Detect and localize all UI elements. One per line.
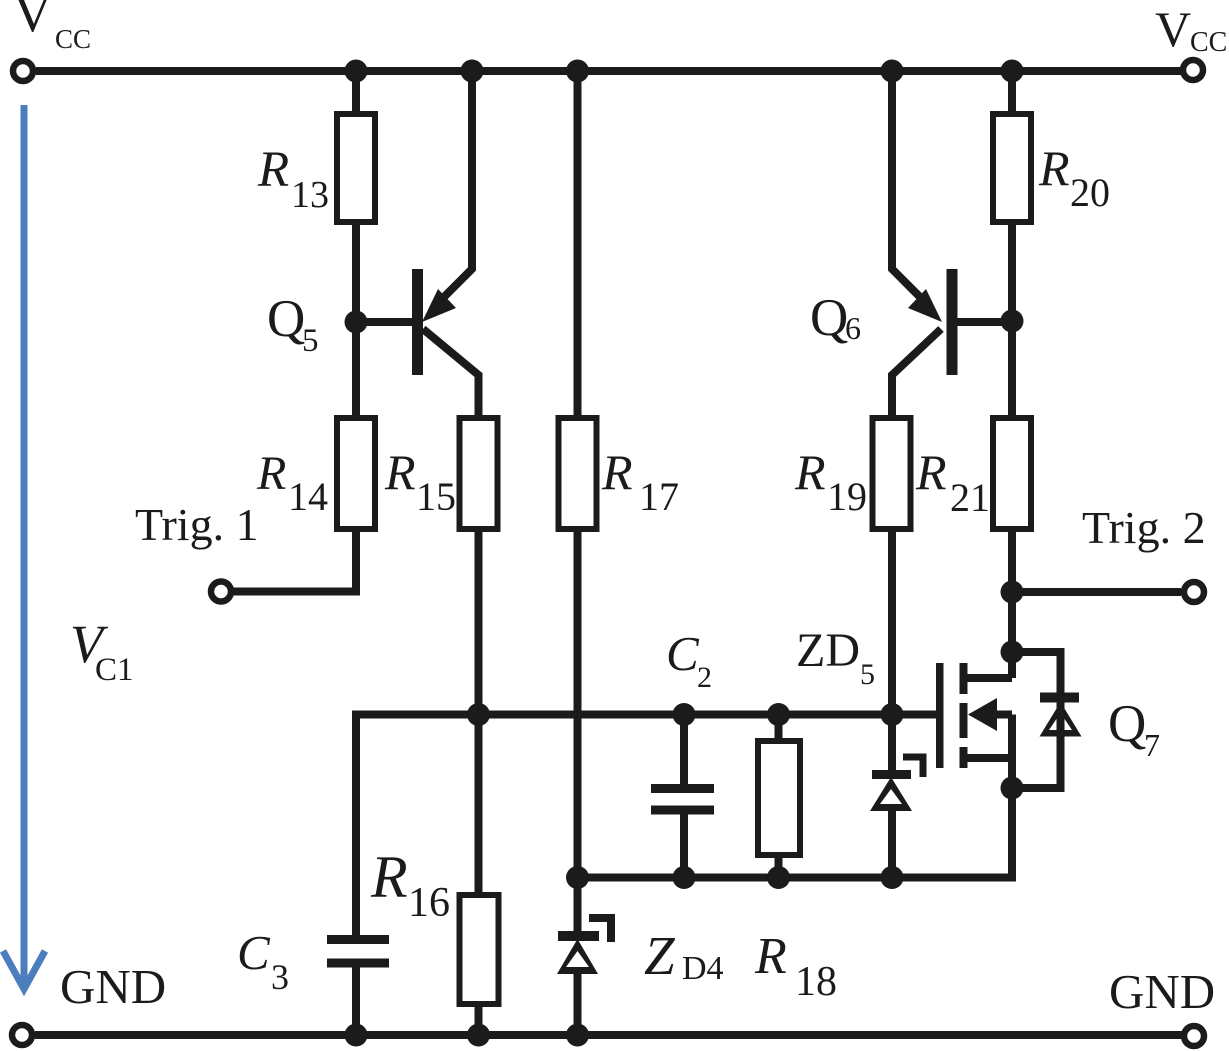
- svg-text:19: 19: [827, 474, 867, 519]
- svg-text:5: 5: [860, 658, 875, 691]
- svg-text:GND: GND: [1109, 964, 1215, 1019]
- svg-text:3: 3: [271, 957, 289, 997]
- svg-text:Q: Q: [810, 289, 848, 347]
- svg-text:14: 14: [288, 474, 328, 519]
- svg-text:C: C: [237, 925, 271, 980]
- svg-text:D4: D4: [682, 950, 724, 987]
- svg-text:GND: GND: [60, 959, 166, 1014]
- svg-text:R: R: [370, 844, 408, 910]
- svg-text:R: R: [257, 142, 289, 198]
- svg-text:R: R: [915, 444, 947, 500]
- svg-text:C1: C1: [95, 652, 134, 688]
- svg-text:CC: CC: [55, 24, 91, 54]
- svg-text:Q: Q: [1108, 695, 1146, 753]
- svg-text:R: R: [794, 444, 826, 500]
- svg-text:Z: Z: [644, 925, 676, 986]
- svg-text:R: R: [601, 444, 633, 500]
- svg-text:6: 6: [845, 310, 861, 346]
- svg-text:C: C: [666, 626, 700, 681]
- svg-text:Q: Q: [267, 290, 305, 348]
- svg-text:V: V: [13, 0, 52, 43]
- svg-text:21: 21: [950, 475, 990, 520]
- svg-text:R: R: [384, 444, 416, 500]
- svg-text:R: R: [256, 447, 286, 500]
- svg-text:ZD: ZD: [796, 624, 860, 677]
- svg-text:V: V: [1155, 1, 1191, 57]
- svg-text:20: 20: [1070, 170, 1110, 215]
- svg-text:Trig. 1: Trig. 1: [135, 499, 259, 550]
- svg-text:5: 5: [302, 323, 319, 359]
- svg-text:Trig. 2: Trig. 2: [1082, 502, 1206, 553]
- svg-text:16: 16: [408, 880, 450, 926]
- svg-text:2: 2: [697, 661, 712, 694]
- svg-text:18: 18: [795, 959, 837, 1005]
- svg-text:CC: CC: [1190, 27, 1227, 58]
- svg-text:7: 7: [1144, 727, 1160, 763]
- svg-text:13: 13: [291, 174, 329, 216]
- svg-text:17: 17: [639, 474, 679, 519]
- svg-text:R: R: [754, 928, 787, 985]
- svg-text:R: R: [1038, 140, 1070, 196]
- svg-text:15: 15: [416, 474, 456, 519]
